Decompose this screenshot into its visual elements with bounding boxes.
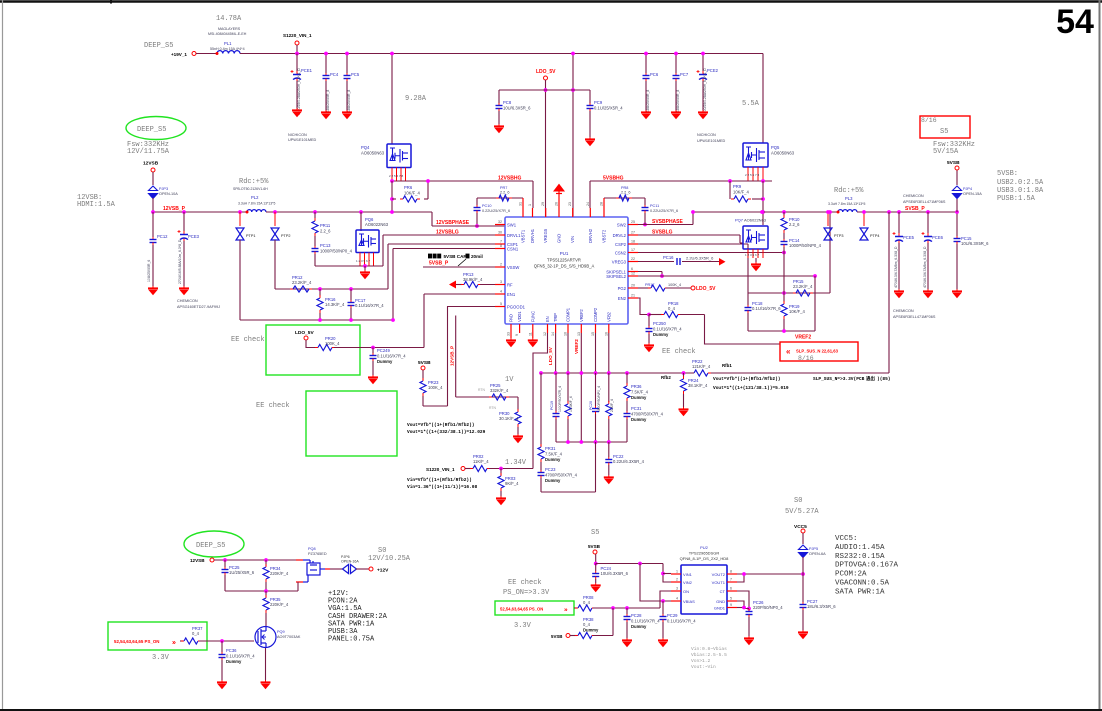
svg-text:UPW1E101MED: UPW1E101MED bbox=[697, 139, 726, 143]
wire PR35 top bbox=[265, 591, 267, 597]
svg-text:10U/6.3X5R_6: 10U/6.3X5R_6 bbox=[601, 571, 629, 576]
svg-text:0_4: 0_4 bbox=[668, 306, 676, 311]
svg-text:PU1: PU1 bbox=[560, 251, 569, 256]
wire comp column right bbox=[595, 442, 597, 492]
svg-text:29: 29 bbox=[541, 202, 545, 206]
wire 12VSBPHASE riser bbox=[431, 212, 433, 226]
svg-text:1800/25/0.28A/250H_6.3*11_D: 1800/25/0.28A/250H_6.3*11_D bbox=[703, 68, 707, 115]
svg-text:7: 7 bbox=[730, 578, 732, 582]
wire bbox=[802, 557, 804, 574]
junction bbox=[318, 287, 322, 291]
wire bbox=[956, 170, 958, 185]
transistor PQ5 bbox=[743, 143, 768, 167]
wire to PU2 bbox=[596, 563, 663, 565]
svg-text:PC19: PC19 bbox=[550, 401, 554, 410]
wire VIN1 feed bbox=[663, 573, 671, 575]
svg-text:AUDIO:1.45A: AUDIO:1.45A bbox=[835, 544, 885, 552]
transistor PQ7 bbox=[743, 226, 768, 249]
resistor PR02 bbox=[465, 468, 471, 470]
junction bbox=[828, 210, 832, 214]
junction bbox=[638, 562, 642, 566]
svg-text:CT: CT bbox=[720, 589, 726, 594]
svg-text:270U/16/5.88A/10m_6.3*8_D: 270U/16/5.88A/10m_6.3*8_D bbox=[178, 239, 182, 284]
svg-text:GND1: GND1 bbox=[714, 605, 726, 610]
PU1 pin VREG5 (pin 29) bbox=[545, 208, 547, 217]
svg-text:Vout=1*((1+(332/38.1))=12.029: Vout=1*((1+(332/38.1))=12.029 bbox=[407, 429, 486, 435]
wire 12VSB_P sense stub bbox=[455, 316, 457, 398]
svg-text:2 2 5 6 7 8: 2 2 5 6 7 8 bbox=[389, 174, 404, 178]
junction bbox=[363, 264, 367, 268]
svg-text:470U6.3/4.7A/8m_6.3X8_D: 470U6.3/4.7A/8m_6.3X8_D bbox=[923, 246, 927, 288]
svg-text:SVSB_P: SVSB_P bbox=[905, 206, 925, 212]
PU1 pin DRVH2 (pin 24) bbox=[589, 208, 591, 217]
svg-text:13: 13 bbox=[577, 332, 581, 336]
wire EN1 down bbox=[423, 294, 425, 348]
resistor PR36 symbol bbox=[624, 383, 630, 401]
PU1 pin PAD (pin 33) bbox=[510, 324, 512, 333]
svg-text:5VSB:: 5VSB: bbox=[997, 170, 1018, 178]
svg-text:VCC5:: VCC5: bbox=[835, 535, 858, 543]
resistor PR6 bbox=[392, 198, 396, 200]
PU1 pin VREG3 (pin 22) bbox=[628, 261, 638, 263]
svg-text:12VSB_P: 12VSB_P bbox=[450, 346, 455, 366]
svg-text:Dummy: Dummy bbox=[653, 332, 669, 337]
svg-text:USB3.0:1.8A: USB3.0:1.8A bbox=[997, 187, 1044, 195]
svg-text:APSE6R3ELL471MF06S: APSE6R3ELL471MF06S bbox=[903, 200, 946, 204]
wire PQ4 source to phase bbox=[391, 181, 393, 212]
svg-text:3.3V: 3.3V bbox=[514, 622, 532, 630]
wire COMP2 down bbox=[595, 333, 597, 373]
terminal 5VSB lower bbox=[593, 550, 597, 554]
svg-text:DRVH2: DRVH2 bbox=[588, 228, 593, 243]
svg-text:PC5: PC5 bbox=[351, 72, 360, 77]
PU1 pin COMP1 (pin 10) bbox=[567, 324, 569, 333]
resistor PR34 bbox=[265, 560, 267, 566]
junction bbox=[782, 251, 786, 255]
svg-text:Vout=Vfb*((1+(Rfb1/Rfb2)): Vout=Vfb*((1+(Rfb1/Rfb2)) bbox=[407, 422, 475, 428]
capacitor PC4 symbol bbox=[323, 73, 330, 81]
svg-text:20mil: 20mil bbox=[471, 254, 483, 259]
wire CSP1 down bbox=[387, 244, 389, 289]
ground PC22 bbox=[604, 475, 614, 484]
svg-text:AO9T7003AK: AO9T7003AK bbox=[277, 635, 301, 639]
wire 12VSBLG down bbox=[382, 235, 384, 266]
capacitor PC22 symbol bbox=[605, 457, 612, 465]
svg-text:12VSB_P: 12VSB_P bbox=[163, 206, 186, 212]
resistor PR02 symbol bbox=[470, 466, 490, 472]
wire PQ8 gate rail bbox=[225, 590, 298, 592]
svg-text:RTN: RTN bbox=[478, 388, 485, 392]
ground PQ9 bbox=[261, 680, 271, 689]
wire 12V phase to gate-drive bbox=[392, 180, 533, 182]
ground PCE3 bbox=[179, 286, 189, 295]
junction bbox=[566, 371, 570, 375]
PU1 pin CSP2 (pin 18) bbox=[628, 243, 638, 245]
transistor PQ4 pins bbox=[391, 168, 393, 182]
svg-text:VREG5: VREG5 bbox=[543, 228, 548, 243]
svg-text:COMP2: COMP2 bbox=[593, 307, 598, 322]
PU1 pin VBST2 (pin 28) bbox=[603, 208, 605, 217]
svg-text:»: » bbox=[564, 607, 568, 614]
ground PC29 bbox=[658, 638, 668, 647]
svg-text:PC23: PC23 bbox=[545, 467, 556, 472]
svg-text:18U/25/X5R_8: 18U/25/X5R_8 bbox=[347, 90, 351, 112]
wire comp rail B bbox=[556, 441, 627, 443]
junction bbox=[313, 210, 317, 214]
svg-text:AO6022N63: AO6022N63 bbox=[744, 218, 767, 223]
junction bbox=[390, 179, 394, 183]
junction bbox=[594, 440, 598, 444]
junction bbox=[644, 52, 648, 56]
PU1 pin RF (pin 3) bbox=[495, 284, 505, 286]
svg-text:PCE2: PCE2 bbox=[707, 68, 719, 73]
resistor PR16 bbox=[319, 289, 321, 296]
wire PR38 up bbox=[612, 608, 614, 636]
resistor PR18 symbol bbox=[661, 312, 681, 318]
PU1 pin SKIPSEL2 (pin 12) bbox=[628, 275, 638, 277]
wire PQ5 drain bbox=[762, 54, 764, 144]
svg-text:26: 26 bbox=[555, 202, 559, 206]
wire VCC5 down bbox=[802, 574, 804, 602]
svg-text:5V/15A: 5V/15A bbox=[933, 148, 959, 156]
svg-text:DRVL2: DRVL2 bbox=[613, 233, 627, 238]
svg-text:Dummy: Dummy bbox=[631, 417, 647, 422]
svg-text:+19V_1: +19V_1 bbox=[171, 52, 187, 57]
PU2 pin VOUT1 (pin 7) bbox=[727, 581, 737, 583]
resistor PR23 symbol bbox=[420, 378, 426, 396]
svg-text:VIN2: VIN2 bbox=[683, 580, 693, 585]
svg-text:CSP2: CSP2 bbox=[615, 242, 627, 247]
capacitor PC29 bbox=[662, 601, 664, 614]
resistor PR26 symbol bbox=[565, 401, 571, 419]
capacitor PC18 bbox=[747, 293, 749, 305]
PU2 pin ON (pin 3) bbox=[671, 590, 681, 592]
svg-text:LDO_5V: LDO_5V bbox=[696, 286, 716, 292]
svg-text:14.3K/F_4: 14.3K/F_4 bbox=[325, 302, 345, 307]
wire SVSBPHASE bbox=[638, 224, 693, 226]
wire to SLP_SUS_N bbox=[705, 315, 781, 345]
capacitor PCE1 bbox=[296, 54, 298, 72]
capacitor PC27 symbol bbox=[800, 602, 807, 610]
svg-text:VOUT2: VOUT2 bbox=[712, 572, 726, 577]
terminal +12V bbox=[369, 567, 373, 571]
junction bbox=[579, 371, 583, 375]
svg-text:1000P/50/X7R_4: 1000P/50/X7R_4 bbox=[558, 386, 562, 412]
wire PQ4 drain bbox=[391, 54, 393, 145]
svg-text:30: 30 bbox=[498, 231, 502, 235]
svg-text:5VSB: 5VSB bbox=[551, 634, 562, 639]
capacitor PC24 bbox=[595, 564, 597, 572]
svg-text:5VSB CAP: 5VSB CAP bbox=[444, 254, 467, 259]
svg-text:17: 17 bbox=[631, 248, 635, 252]
wire 5V phase bbox=[590, 180, 772, 182]
svg-text:5VSB_P: 5VSB_P bbox=[429, 261, 449, 267]
svg-text:SVSBPHASE: SVSBPHASE bbox=[652, 219, 684, 225]
wire bbox=[296, 45, 298, 54]
off-page connector SLP_SUS_N bbox=[780, 342, 858, 361]
PU1 pin VBST1 (pin 31) bbox=[522, 208, 524, 217]
svg-text:PG2: PG2 bbox=[618, 286, 627, 291]
PU1 pin SW2 (pin 25) bbox=[628, 224, 638, 226]
svg-text:«: « bbox=[786, 347, 791, 356]
ground FUNC bbox=[532, 333, 534, 338]
resistor PR11 symbol bbox=[312, 218, 318, 236]
junction bbox=[887, 210, 891, 214]
svg-text:121K/F_4: 121K/F_4 bbox=[692, 364, 711, 369]
svg-text:PL2: PL2 bbox=[251, 195, 259, 200]
svg-text:PQ4: PQ4 bbox=[361, 145, 370, 150]
PU1 pin DRVL1 (pin 30) bbox=[495, 234, 505, 236]
resistor PR10 bbox=[783, 212, 785, 216]
PU1 pin SKIPSEL1 (pin 6) bbox=[628, 271, 638, 273]
resistor PR03 symbol bbox=[498, 473, 504, 491]
terminal 5VSB dummy bbox=[566, 634, 570, 638]
svg-text:SLP_SUS_N 22,61,63: SLP_SUS_N 22,61,63 bbox=[796, 349, 839, 354]
terminal 12VSB lower bbox=[210, 558, 214, 562]
svg-text:Vout=1*((1+(121/38.1))=5.019: Vout=1*((1+(121/38.1))=5.019 bbox=[713, 385, 789, 391]
wire Rfb1 feedback bbox=[888, 212, 890, 373]
junction bbox=[554, 371, 558, 375]
svg-text:10: 10 bbox=[564, 332, 568, 336]
svg-text:1000P/50/NP0_4: 1000P/50/NP0_4 bbox=[789, 243, 822, 248]
wire 5VSB feed bbox=[595, 554, 597, 564]
svg-text:4: 4 bbox=[676, 597, 678, 601]
svg-text:SW2: SW2 bbox=[617, 222, 627, 227]
svg-text:PGOOD1: PGOOD1 bbox=[507, 304, 526, 309]
svg-text:12VSBPHASE: 12VSBPHASE bbox=[436, 220, 470, 226]
PU2 pin VIN2 (pin 2) bbox=[671, 581, 681, 583]
resistor PR8 symbol bbox=[616, 195, 632, 201]
svg-text:UPW1E101MED: UPW1E101MED bbox=[288, 138, 317, 142]
inductor PL3 bbox=[837, 210, 858, 214]
svg-text:Dummy: Dummy bbox=[631, 624, 647, 629]
svg-text:12V/10.25A: 12V/10.25A bbox=[368, 555, 411, 563]
wire VBIAS feed bbox=[640, 564, 671, 602]
svg-text:CHEMICON: CHEMICON bbox=[903, 194, 924, 198]
svg-text:+12V: +12V bbox=[377, 568, 389, 574]
svg-text:3: 3 bbox=[676, 587, 678, 591]
svg-text:CHEMICON: CHEMICON bbox=[177, 299, 198, 303]
wire VCC5 bbox=[802, 533, 804, 544]
svg-text:Vout:~Vin: Vout:~Vin bbox=[691, 664, 716, 670]
resistor PR28 bbox=[608, 373, 610, 402]
resistor PR10 symbol bbox=[781, 215, 787, 233]
PU1 pin VDD1 (pin 9) bbox=[519, 324, 521, 333]
svg-text:32: 32 bbox=[498, 220, 502, 224]
svg-text:PR9: PR9 bbox=[733, 184, 742, 189]
svg-text:8/16: 8/16 bbox=[921, 117, 937, 124]
wire feedback left bbox=[627, 372, 694, 374]
svg-text:APSG160ETD27-9AF99J: APSG160ETD27-9AF99J bbox=[177, 305, 220, 309]
junction bbox=[499, 467, 503, 471]
svg-text:S0: S0 bbox=[794, 497, 802, 505]
svg-text:EE check: EE check bbox=[662, 348, 696, 356]
svg-text:LDO_5V: LDO_5V bbox=[548, 346, 553, 365]
resistor PR22 symbol bbox=[691, 370, 711, 376]
wire bbox=[196, 53, 217, 55]
wire VREF2 bbox=[748, 330, 815, 332]
junction bbox=[295, 52, 299, 56]
junction bbox=[761, 179, 765, 183]
svg-text:0.22U/25/X7R_6: 0.22U/25/X7R_6 bbox=[650, 209, 678, 213]
capacitor PC8 symbol bbox=[496, 103, 503, 111]
capacitor PCE1 symbol bbox=[291, 70, 302, 81]
ground PC24 bbox=[591, 583, 601, 592]
svg-text:27: 27 bbox=[631, 231, 635, 235]
svg-text:VIN1: VIN1 bbox=[683, 572, 693, 577]
capacitor PC19 symbol bbox=[553, 411, 560, 419]
wire PQ8 drain to jumper bbox=[330, 568, 343, 570]
svg-text:4700P/50/X7R_4: 4700P/50/X7R_4 bbox=[631, 411, 664, 416]
svg-text:2: 2 bbox=[676, 578, 678, 582]
PU1 pin PG2 (pin 20) bbox=[628, 287, 638, 289]
wire CSP1 bbox=[388, 243, 505, 245]
ground PC12 bbox=[148, 286, 158, 295]
svg-text:PQ5: PQ5 bbox=[771, 145, 780, 150]
transistor PQ6 pins bbox=[359, 253, 361, 267]
svg-text:5VSB: 5VSB bbox=[588, 544, 601, 549]
svg-text:)(85): )(85) bbox=[877, 376, 891, 382]
svg-text:10U/25/X5R_6: 10U/25/X5R_6 bbox=[147, 260, 151, 282]
svg-text:PR8: PR8 bbox=[621, 186, 628, 190]
svg-text:5VSB: 5VSB bbox=[947, 160, 960, 166]
svg-text:MAGLAYERS: MAGLAYERS bbox=[218, 27, 241, 31]
junction bbox=[782, 210, 786, 214]
svg-text:PC16: PC16 bbox=[663, 255, 674, 260]
PU1 pin VFB2 (pin 16) bbox=[608, 324, 610, 333]
svg-text:1: 1 bbox=[528, 204, 532, 206]
ground PQ7 symbol bbox=[751, 262, 761, 271]
svg-text:15: 15 bbox=[591, 332, 595, 336]
wire PTP1 down bbox=[239, 240, 241, 320]
svg-text:PL3: PL3 bbox=[845, 196, 853, 201]
wire sense bottom bbox=[240, 319, 393, 321]
svg-text:OPEN-15A: OPEN-15A bbox=[963, 192, 982, 196]
svg-text:4: 4 bbox=[500, 290, 502, 294]
svg-text:220K/F_4: 220K/F_4 bbox=[270, 602, 289, 607]
junction bbox=[223, 558, 227, 562]
capacitor PC29 symbol bbox=[660, 614, 667, 622]
resistor PR34 symbol bbox=[263, 564, 269, 582]
svg-text:1 2 3 5 6 7: 1 2 3 5 6 7 bbox=[356, 259, 371, 263]
svg-text:DEEP_S5: DEEP_S5 bbox=[137, 126, 166, 134]
svg-text:PQ8: PQ8 bbox=[308, 547, 316, 551]
junction bbox=[643, 223, 647, 227]
svg-text:VCC5: VCC5 bbox=[794, 524, 807, 530]
transistor PQ5 pins bbox=[747, 167, 749, 181]
junction bbox=[742, 606, 746, 610]
svg-text:CSN1: CSN1 bbox=[507, 246, 519, 251]
wire 12V phase bus bbox=[266, 211, 432, 213]
svg-text:OPEN-10A: OPEN-10A bbox=[159, 192, 178, 196]
svg-text:220P/50/NP0_4: 220P/50/NP0_4 bbox=[753, 605, 783, 610]
svg-text:PC9: PC9 bbox=[594, 100, 603, 105]
svg-text:VSSW: VSSW bbox=[507, 265, 519, 270]
resistor PR20 symbol bbox=[315, 345, 335, 351]
terminal SVSB check bbox=[421, 366, 425, 370]
svg-text:Vbias:2.5-5.5: Vbias:2.5-5.5 bbox=[691, 652, 727, 658]
svg-text:3.3uH 7.8m 15A 13*13*5: 3.3uH 7.8m 15A 13*13*5 bbox=[828, 202, 865, 206]
transistor PQ9 bbox=[255, 626, 276, 648]
svg-text:12: 12 bbox=[631, 272, 635, 276]
svg-text:Dummy: Dummy bbox=[545, 457, 561, 462]
svg-text:31: 31 bbox=[519, 202, 523, 206]
svg-text:Vin=1.36*((1+(11/1))=16.08: Vin=1.36*((1+(11/1))=16.08 bbox=[407, 484, 478, 490]
svg-text:PAD: PAD bbox=[509, 314, 514, 322]
wire VSSW bbox=[423, 266, 505, 268]
svg-text:2.2_6: 2.2_6 bbox=[621, 191, 631, 195]
EE check box 2 bbox=[306, 391, 397, 456]
svg-text:SPB-OT50-2126V1-6H: SPB-OT50-2126V1-6H bbox=[233, 187, 268, 191]
wire SKIPSEL join bbox=[661, 272, 663, 277]
capacitor PC25 symbol bbox=[222, 567, 229, 575]
capacitor PC23 symbol bbox=[538, 470, 545, 478]
svg-text:SVSBLG: SVSBLG bbox=[652, 230, 673, 236]
svg-text:11: 11 bbox=[528, 332, 532, 336]
PU2 pin GND (pin 5) bbox=[727, 600, 737, 602]
junction bbox=[674, 52, 678, 56]
svg-text:8: 8 bbox=[730, 570, 732, 574]
op-amp U2 (load switch PU2 TPS22965) bbox=[681, 565, 727, 614]
resistor PR31 symbol bbox=[538, 444, 544, 462]
jumper PJP6 bbox=[343, 565, 357, 574]
svg-text:0.1U/16/X7R_4: 0.1U/16/X7R_4 bbox=[226, 654, 255, 659]
svg-text:0.1U/16/X7R_4: 0.1U/16/X7R_4 bbox=[355, 303, 384, 308]
svg-text:PU2: PU2 bbox=[700, 545, 709, 550]
PU1 pin EN (pin 12) bbox=[547, 324, 549, 333]
capacitor PC250 bbox=[648, 315, 650, 327]
capacitor PC12 symbol bbox=[150, 237, 157, 245]
svg-text:S5: S5 bbox=[940, 128, 948, 136]
junction bbox=[391, 318, 395, 322]
svg-text:0.22U/25/X7R_6: 0.22U/25/X7R_6 bbox=[482, 209, 510, 213]
capacitor PC5 symbol bbox=[344, 73, 351, 81]
resistor PR23 bbox=[422, 370, 424, 380]
PU1 pin DRVL2 (pin 27) bbox=[628, 234, 638, 236]
PU1 pin CSN2 (pin 17) bbox=[628, 252, 638, 254]
svg-text:PR6: PR6 bbox=[404, 185, 413, 190]
svg-text:OPEN-6A: OPEN-6A bbox=[809, 552, 826, 556]
PU1 pin CSP1 (pin 7) bbox=[495, 243, 505, 245]
junction bbox=[264, 589, 268, 593]
transistor PQ4 bbox=[387, 144, 411, 168]
capacitor PCE3 symbol bbox=[178, 230, 189, 241]
svg-text:12VSBLG: 12VSBLG bbox=[436, 230, 459, 236]
svg-text:0.1U/16/X7R_4: 0.1U/16/X7R_4 bbox=[377, 354, 406, 359]
svg-text:1V: 1V bbox=[505, 376, 514, 384]
svg-text:PTP4: PTP4 bbox=[870, 234, 880, 238]
svg-text:AO6050N63: AO6050N63 bbox=[771, 150, 795, 155]
svg-text:18U/25/X5R_8: 18U/25/X5R_8 bbox=[326, 90, 330, 112]
junction bbox=[660, 274, 664, 278]
junction bbox=[661, 599, 665, 603]
PU1 pin VIN (pin 23) bbox=[572, 208, 574, 217]
svg-text:VBST2: VBST2 bbox=[602, 229, 607, 243]
capacitor PC7 bbox=[675, 54, 677, 74]
PU2 pin VBIAS (pin 4) bbox=[671, 600, 681, 602]
svg-text:EE check: EE check bbox=[256, 402, 290, 410]
svg-text:11K/F_4: 11K/F_4 bbox=[473, 459, 489, 464]
wire DRVH2 bbox=[589, 181, 591, 208]
svg-text:10K/F_4: 10K/F_4 bbox=[733, 189, 750, 194]
svg-text:18U/6.3/X5R_6: 18U/6.3/X5R_6 bbox=[807, 604, 836, 609]
svg-text:»: » bbox=[172, 640, 176, 647]
svg-text:AO6050N63: AO6050N63 bbox=[361, 150, 385, 155]
ground PR24 bbox=[679, 407, 689, 416]
wire VOUT2 bbox=[737, 573, 803, 575]
capacitor PC25 bbox=[224, 560, 226, 567]
junction bbox=[579, 440, 583, 444]
